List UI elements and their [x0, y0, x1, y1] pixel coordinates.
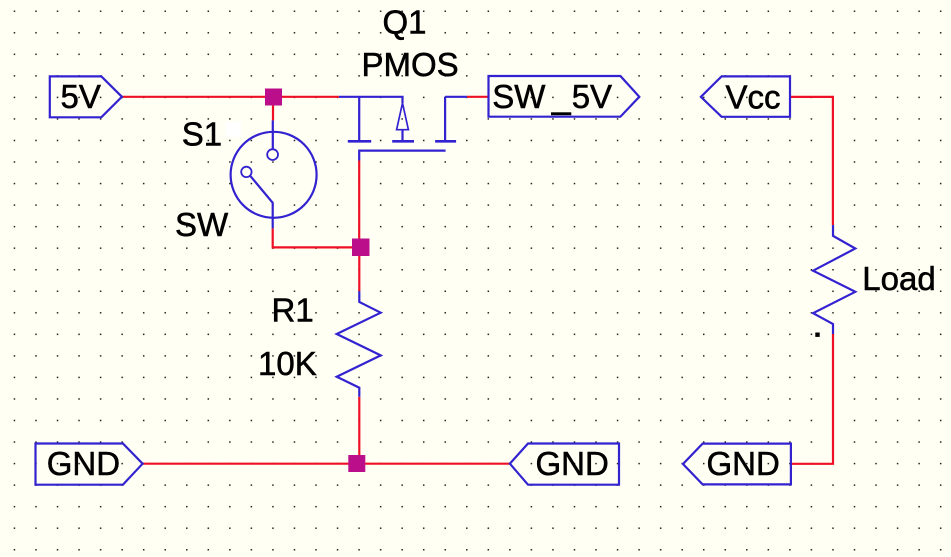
wire junction down to switch S1 top	[272, 104, 274, 120]
flag GND left	[36, 444, 143, 485]
junction node at ground rail	[348, 455, 365, 472]
svg-text:SW: SW	[492, 78, 546, 115]
svg-text:5V: 5V	[61, 78, 101, 115]
wire junction 2 to resistor R1	[358, 254, 360, 291]
svg-text:S1: S1	[182, 116, 222, 153]
resistor Load	[813, 225, 855, 334]
wire PMOS gate down to junction 2	[358, 161, 360, 241]
svg-text:GND: GND	[707, 445, 780, 482]
flag GND right	[683, 444, 791, 485]
flag 5V	[50, 76, 122, 117]
flag SW_5V	[489, 76, 640, 117]
switch S1	[231, 120, 317, 228]
svg-text:SW: SW	[175, 206, 229, 243]
wire PMOS drain to SW_5V flag	[467, 96, 489, 98]
wire Load resistor to GND flag	[791, 334, 833, 464]
svg-text:Vcc: Vcc	[726, 79, 781, 116]
wire resistor R1 to bottom rail	[358, 397, 360, 464]
junction node at gate/switch/R1	[352, 239, 370, 257]
svg-text:5V: 5V	[572, 78, 612, 115]
white patch artifact near S1	[226, 122, 241, 138]
svg-text:10K: 10K	[258, 345, 317, 382]
svg-text:Load: Load	[862, 260, 935, 297]
wire Vcc flag to Load resistor	[790, 97, 833, 225]
wire switch bottom to junction 2	[273, 228, 353, 247]
transistor Q1 PMOS symbol	[339, 97, 467, 161]
flag Vcc	[701, 76, 790, 116]
wire bottom ground rail	[143, 463, 510, 465]
junction node at 5V rail	[265, 89, 282, 106]
svg-text:Q1: Q1	[383, 4, 427, 41]
svg-text:GND: GND	[536, 445, 609, 482]
flag GND middle	[510, 444, 619, 485]
resistor R1	[337, 291, 381, 397]
label period	[815, 333, 819, 337]
svg-text:PMOS: PMOS	[362, 46, 459, 83]
svg-text:GND: GND	[47, 445, 120, 482]
wire 5V flag to junction and PMOS source	[122, 96, 339, 98]
svg-text:R1: R1	[272, 291, 314, 328]
